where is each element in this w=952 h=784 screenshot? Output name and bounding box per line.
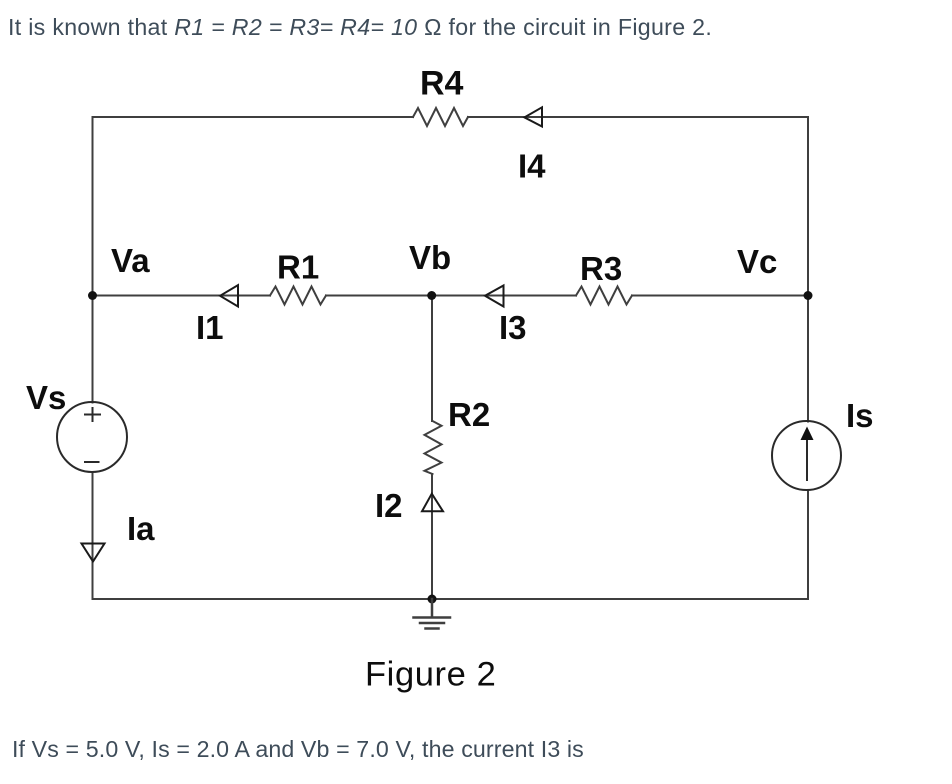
- question text: [12, 736, 584, 763]
- resistor R2: [425, 421, 442, 474]
- voltage source Vs: [57, 402, 127, 472]
- svg-text:I4: I4: [518, 148, 546, 185]
- svg-text:I3: I3: [499, 309, 527, 346]
- wire middle Vc segment: [632, 295, 808, 297]
- ground symbol: [414, 599, 451, 629]
- svg-text:Ia: Ia: [127, 510, 155, 547]
- wire center vertical upper: [431, 296, 433, 422]
- svg-text:I1: I1: [196, 309, 224, 346]
- wire middle Vb segment: [326, 295, 576, 297]
- current arrow I2: [422, 494, 443, 512]
- junction node Vb: [427, 291, 436, 300]
- junction node ground: [428, 595, 437, 604]
- wire left rail above Vs: [92, 296, 94, 403]
- wire bottom-right segment: [432, 490, 808, 599]
- wire top-right segment: [468, 117, 808, 422]
- svg-text:R4: R4: [420, 65, 464, 103]
- svg-text:I2: I2: [375, 487, 403, 524]
- junction node Va: [88, 291, 97, 300]
- svg-text:Vb: Vb: [409, 239, 451, 276]
- current arrow I4: [525, 107, 543, 126]
- svg-text:Vc: Vc: [737, 243, 777, 280]
- wire top-left segment: [93, 117, 414, 296]
- current arrow Ia: [82, 544, 105, 562]
- current source Is: [772, 421, 841, 490]
- current arrow I3: [485, 286, 504, 307]
- svg-text:R3: R3: [580, 250, 622, 287]
- svg-text:R2: R2: [448, 396, 490, 433]
- svg-text:Figure 2: Figure 2: [365, 656, 496, 694]
- junction node Vc: [804, 291, 813, 300]
- wire center vertical lower: [431, 474, 433, 599]
- wire middle Va segment: [93, 295, 271, 297]
- wire left rail below Vs: [93, 472, 433, 599]
- svg-text:Is: Is: [846, 397, 874, 434]
- svg-text:R1: R1: [277, 249, 319, 286]
- resistor R3: [576, 287, 632, 305]
- current arrow I1: [220, 285, 238, 306]
- svg-text:Vs: Vs: [26, 379, 66, 416]
- problem statement text: [8, 14, 712, 41]
- resistor R1: [270, 287, 326, 305]
- resistor R4: [413, 108, 468, 126]
- svg-text:Va: Va: [111, 242, 150, 279]
